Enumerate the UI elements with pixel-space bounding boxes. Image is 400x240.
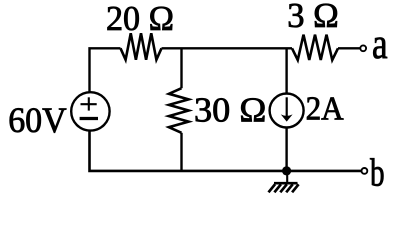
ground stub — [286, 171, 288, 183]
wire 2A branch bottom — [285, 127, 287, 171]
terminal b open circle — [362, 168, 368, 174]
svg-text:b: b — [370, 151, 385, 195]
svg-text:2A: 2A — [306, 91, 345, 128]
terminal a open circle — [360, 45, 366, 51]
voltage source V1 circle — [71, 92, 109, 130]
wire 30 ohm branch top — [180, 48, 182, 88]
wire top left segment — [90, 48, 121, 92]
ground hatch strokes — [269, 184, 299, 192]
svg-text:a: a — [372, 21, 388, 68]
wire 30 ohm branch bottom — [180, 133, 182, 171]
wire 2A branch top — [285, 48, 287, 93]
current source I1 circle — [270, 94, 304, 128]
wire to terminal a — [338, 47, 360, 49]
minus bar inside V1 — [80, 117, 98, 120]
resistor R3 3 ohm — [292, 35, 338, 60]
junction dot node — [282, 166, 291, 175]
plus sign inside V1 — [81, 97, 97, 110]
resistor R2 30 ohm — [169, 88, 189, 133]
arrow inside I1 (pointing down) — [286, 97, 288, 118]
svg-text:60V: 60V — [8, 100, 66, 140]
wire bottom left segment — [90, 131, 362, 171]
resistor R1 20 ohm — [121, 33, 162, 59]
ground bar — [274, 182, 298, 185]
wire top middle segment — [162, 47, 293, 49]
svg-text:3 Ω: 3 Ω — [287, 0, 339, 35]
svg-text:20 Ω: 20 Ω — [106, 0, 174, 38]
svg-text:30 Ω: 30 Ω — [194, 91, 266, 130]
